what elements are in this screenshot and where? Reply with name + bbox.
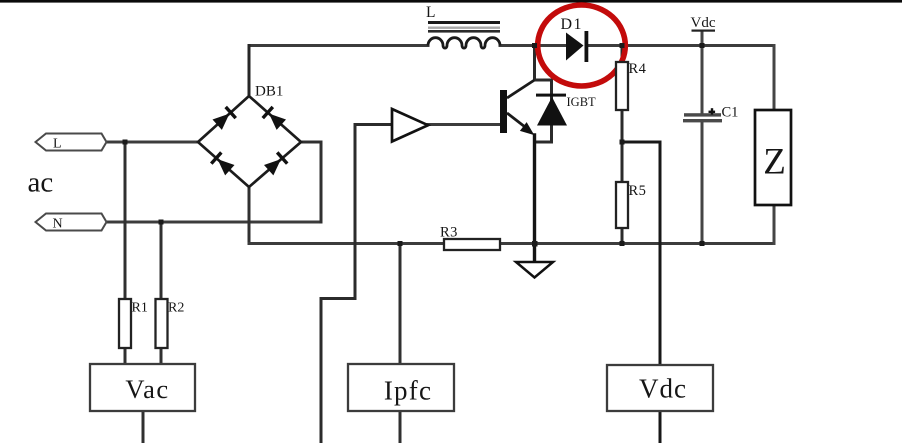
svg-text:ac: ac <box>28 167 54 199</box>
svg-text:IGBT: IGBT <box>567 95 597 109</box>
svg-text:R4: R4 <box>629 61 647 77</box>
svg-text:Z: Z <box>763 142 786 183</box>
svg-text:R1: R1 <box>132 301 148 316</box>
svg-text:Vac: Vac <box>125 374 169 404</box>
svg-text:Vdc: Vdc <box>639 374 687 404</box>
svg-text:L: L <box>426 4 435 21</box>
svg-text:D1: D1 <box>561 16 584 33</box>
svg-text:N: N <box>53 217 63 232</box>
svg-text:R2: R2 <box>168 301 184 316</box>
svg-text:C1: C1 <box>722 105 739 121</box>
svg-text:L: L <box>53 137 62 152</box>
svg-text:R3: R3 <box>440 225 458 241</box>
svg-text:Vdc: Vdc <box>691 15 716 31</box>
svg-text:R5: R5 <box>629 183 647 199</box>
svg-text:Ipfc: Ipfc <box>384 376 432 406</box>
svg-text:DB1: DB1 <box>255 84 283 100</box>
